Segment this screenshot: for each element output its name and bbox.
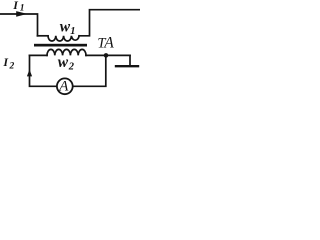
ground wire down [129,55,131,65]
wire secondary left side [30,55,57,86]
junction dot at secondary/ground node [104,53,109,58]
arrow of current I1 [16,11,27,17]
transformer core bar [34,44,87,47]
wire primary top-left [0,14,38,36]
svg-text:A: A [103,35,114,52]
ammeter A circle [57,78,73,94]
winding w1 (primary of TA) [48,36,79,41]
winding w2 (secondary of TA) [47,49,86,55]
svg-text:1: 1 [70,26,75,37]
svg-text:w: w [60,18,71,35]
svg-text:2: 2 [68,62,75,73]
svg-text:A: A [58,79,69,95]
wire secondary bottom-right side [73,55,106,86]
ground bar [116,65,138,67]
svg-text:w: w [58,54,69,71]
arrow of current I2 [27,69,32,76]
svg-text:2: 2 [9,62,15,72]
svg-text:1: 1 [20,4,25,14]
wire secondary top (node to ground tap) [30,54,131,56]
wire primary from winding up to top-right [79,10,140,36]
wire primary to winding [38,35,49,37]
